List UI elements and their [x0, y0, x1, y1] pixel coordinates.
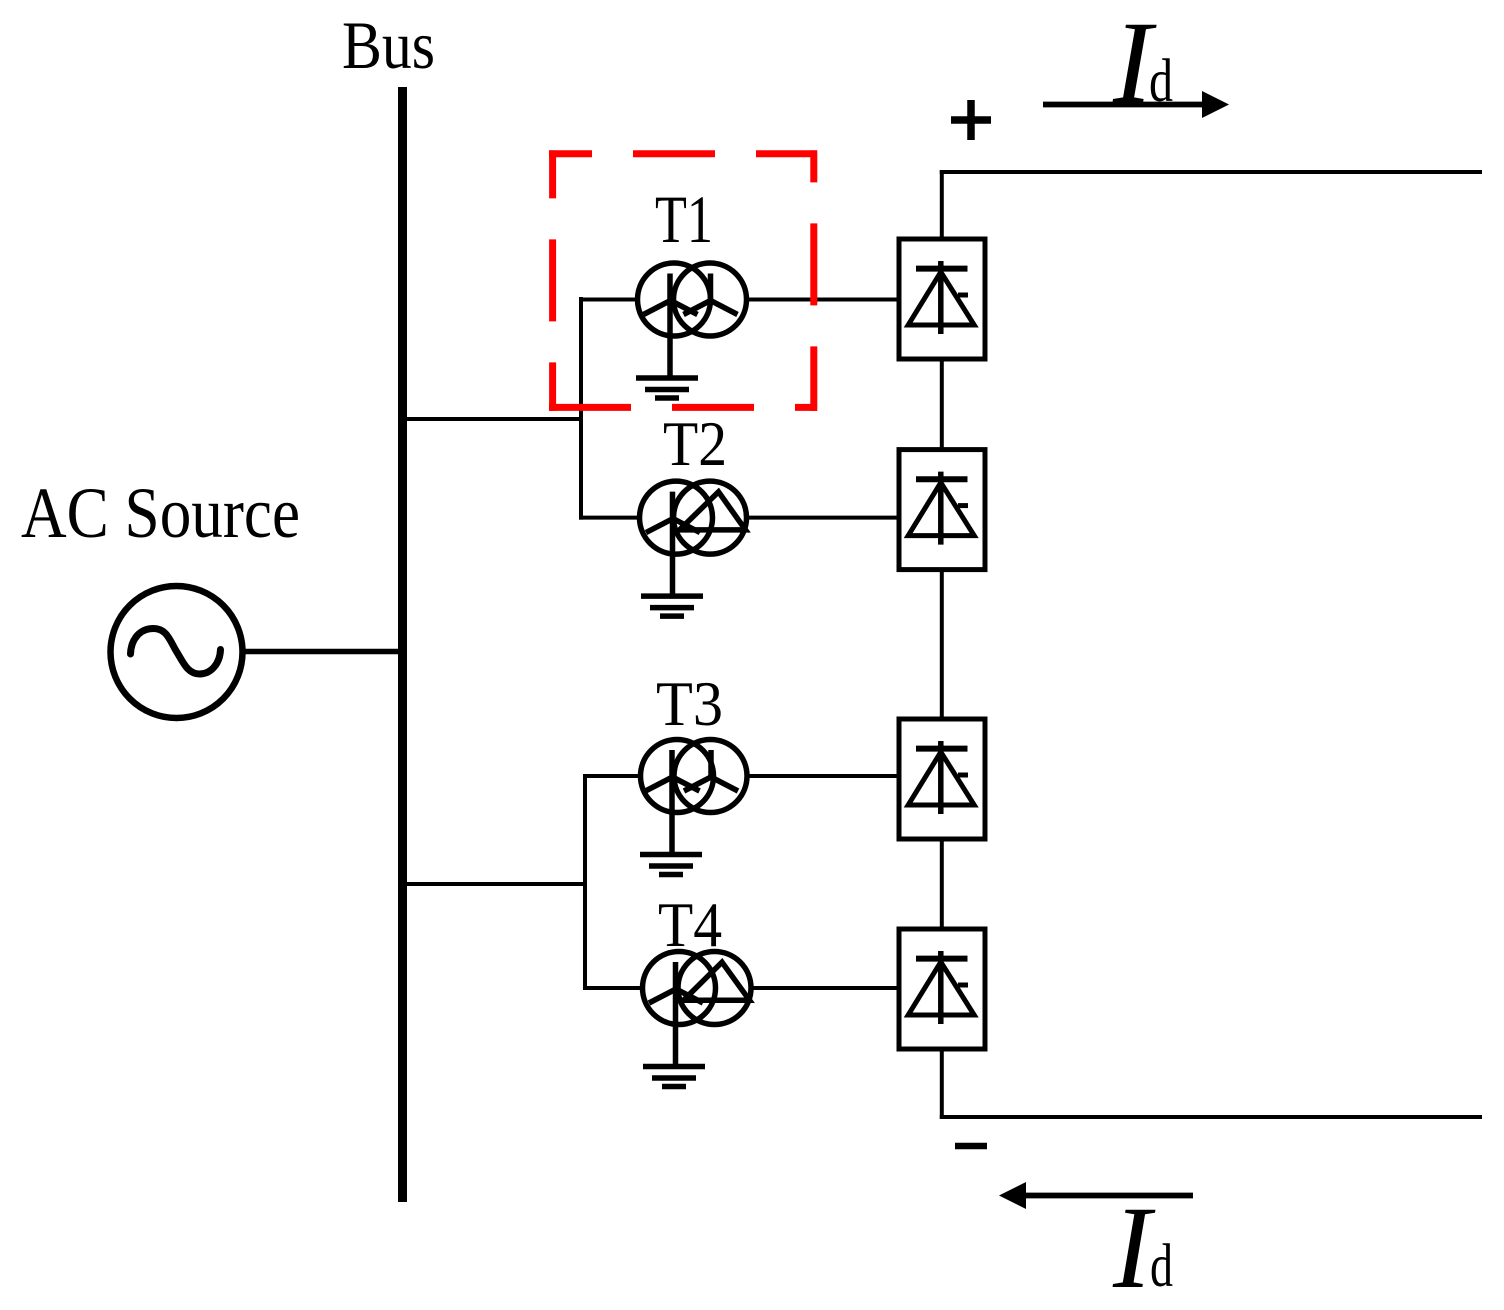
wire T1 to valve V1 — [745, 298, 901, 302]
valve V2 — [899, 450, 985, 570]
arrow Id bottom — [999, 1182, 1193, 1209]
wire bus to branch A — [405, 417, 583, 421]
wire riser to T1 — [579, 298, 638, 302]
wire riser to T4 — [583, 986, 644, 990]
svg-text:d: d — [1149, 48, 1173, 115]
wire T2 to valve V2 — [745, 516, 901, 520]
wire branch B riser — [583, 774, 587, 990]
svg-text:AC Source: AC Source — [21, 473, 300, 553]
wire V1 to V2 — [940, 360, 944, 451]
wire T4 to valve V4 — [750, 986, 902, 990]
wire DC minus rail — [940, 1115, 1482, 1119]
transformer T1 — [638, 263, 747, 378]
svg-text:d: d — [1150, 1233, 1173, 1300]
svg-text:Bus: Bus — [342, 7, 435, 83]
wire V2 to V3 — [940, 570, 944, 721]
ground for T4 — [643, 1067, 705, 1087]
plus terminal label — [951, 100, 991, 140]
red dashed highlight box around T1 — [549, 150, 817, 411]
wire V1 up to DC plus rail — [940, 170, 944, 241]
transformer T4 — [643, 952, 752, 1067]
transformer T2 — [640, 481, 747, 596]
bus bar — [398, 87, 407, 1202]
AC source G1 — [111, 586, 243, 718]
wire branch A riser — [579, 297, 583, 520]
ground for T1 — [636, 378, 698, 398]
wire V4 down to DC minus rail — [940, 1047, 944, 1119]
valve V1 — [899, 239, 985, 359]
wire V3 to V4 — [940, 839, 944, 931]
valve V3 — [899, 719, 985, 839]
valve V4 — [899, 929, 985, 1049]
wire T3 to valve V3 — [746, 774, 902, 778]
svg-text:T1: T1 — [655, 181, 713, 257]
ground for T3 — [640, 855, 702, 875]
svg-text:T2: T2 — [663, 409, 727, 479]
svg-text:T3: T3 — [656, 669, 723, 739]
minus terminal label — [955, 1143, 987, 1150]
wire riser to T2 — [579, 516, 640, 520]
arrow Id top — [1043, 91, 1229, 118]
wire riser to T3 — [583, 774, 640, 778]
wire DC plus rail — [940, 170, 1482, 174]
wire bus to branch B — [405, 882, 587, 886]
wire AC source to bus — [242, 649, 400, 655]
ground for T2 — [641, 596, 703, 616]
transformer T3 — [641, 740, 748, 855]
